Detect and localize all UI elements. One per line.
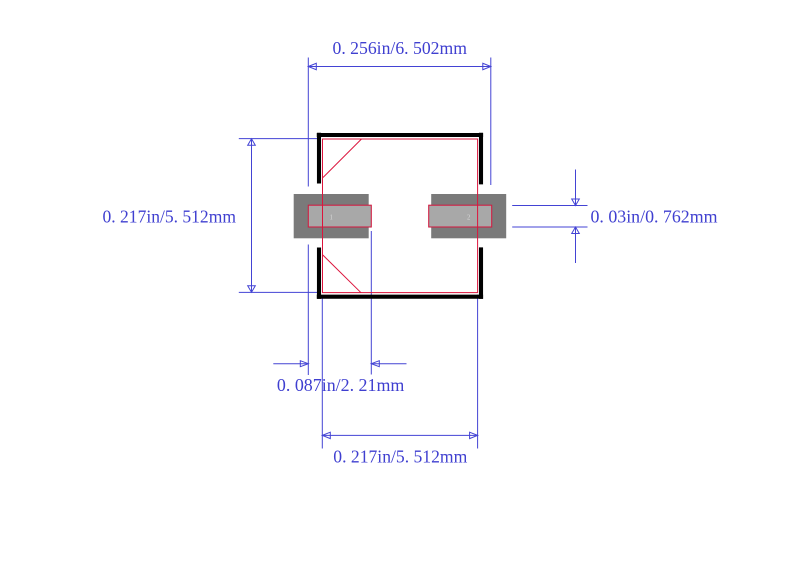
svg-text:2: 2 <box>467 214 471 221</box>
svg-text:0. 03in/0. 762mm: 0. 03in/0. 762mm <box>591 207 718 227</box>
svg-text:0. 217in/5. 512mm: 0. 217in/5. 512mm <box>333 447 467 467</box>
svg-text:1: 1 <box>329 214 332 221</box>
svg-text:0. 256in/6. 502mm: 0. 256in/6. 502mm <box>333 38 468 58</box>
svg-text:0. 217in/5. 512mm: 0. 217in/5. 512mm <box>103 207 237 227</box>
svg-text:0. 087in/2. 21mm: 0. 087in/2. 21mm <box>277 375 405 395</box>
